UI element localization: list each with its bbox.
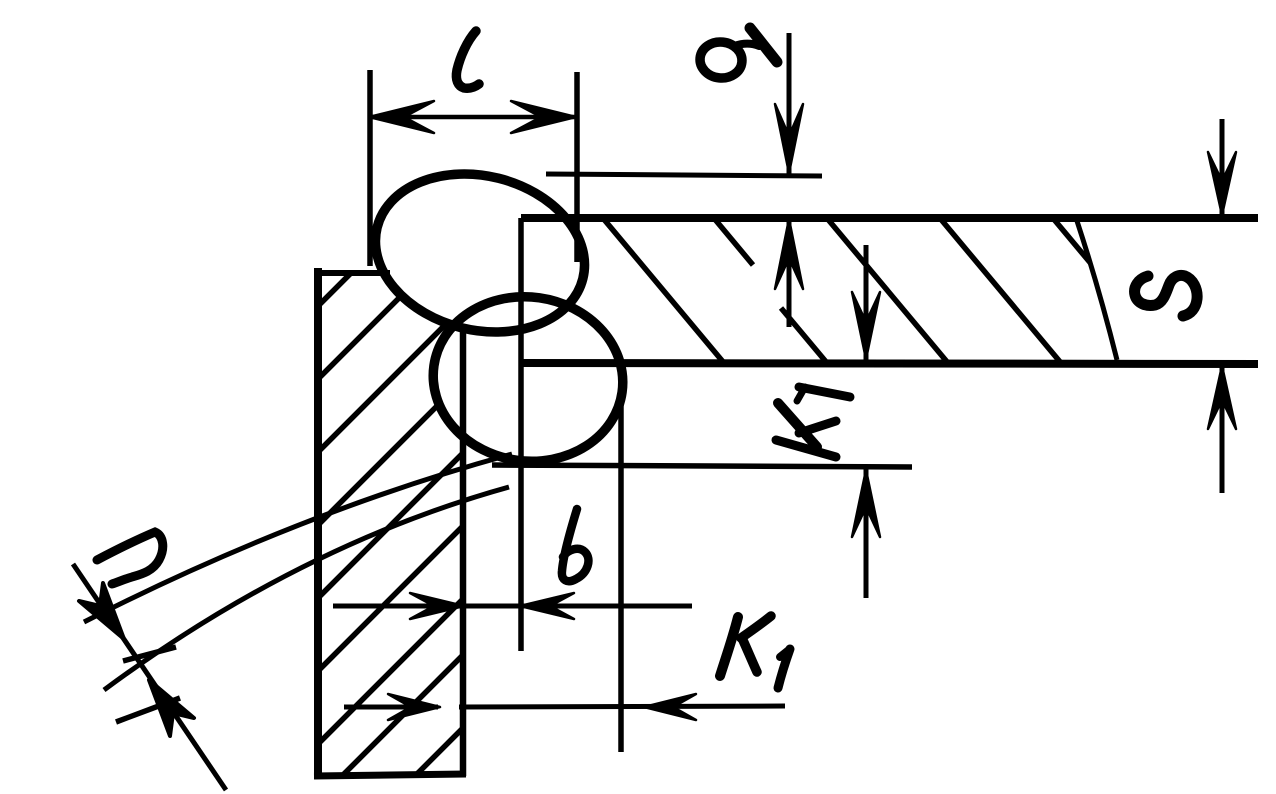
dimension s lower arrow [1208,366,1236,429]
dimension K1 bottom line [344,706,785,707]
dimension h lower arrow [149,680,194,736]
weld bead lower (root reinforcement) [423,285,634,474]
reference line at bottom of lower bead (for K1) [492,465,912,467]
label K1 (rotated) [776,387,850,457]
dimension b line [333,604,692,609]
dimension K1 right upper arrow [852,292,880,359]
horizontal plate outline [521,218,1258,651]
dimension K1 right lower arrow [852,470,880,537]
reference line at top of upper bead (for q) [546,174,822,176]
dimension l right arrow [511,101,576,133]
label s (rotated) [1135,275,1198,316]
dimension h upper arrow [79,583,124,639]
dimension l line [370,115,577,120]
dimension q upper arrow [775,104,803,173]
dimension q lines [787,33,792,327]
dimension l left arrow [369,101,434,133]
vertical plate outline [314,268,466,779]
extension line at right of lower bead (for K1 bottom) [618,366,624,752]
label b [562,509,589,581]
dimension h extension lines [84,454,512,690]
break line at right end of hatching [1077,221,1117,360]
weld bead upper (face reinforcement) [354,148,638,478]
label K1 bottom [720,616,790,688]
dimension K1 bottom left arrow [388,694,440,720]
dimension s upper arrow [1208,152,1236,215]
label q (rotated) [698,28,777,80]
dimension s lines [1220,119,1225,493]
dimension K1 right lines [864,245,869,598]
label h [97,532,163,584]
dimension q lower arrow [775,219,803,289]
dimension h tick marks [116,647,180,722]
dimension h line [73,564,226,790]
dimension b left arrow [410,593,464,619]
section hatching of vertical plate [318,272,464,778]
dimension b right arrow [520,593,574,619]
dimension K1 bottom right arrow [644,694,696,720]
section hatching of horizontal plate [602,217,1174,363]
label l [456,31,479,88]
dimension l extension lines [370,70,577,266]
